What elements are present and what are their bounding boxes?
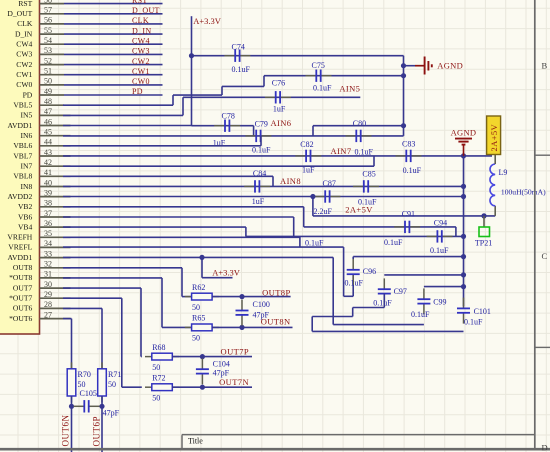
- svg-text:0.1uF: 0.1uF: [355, 147, 374, 156]
- svg-text:C104: C104: [213, 360, 230, 369]
- svg-text:Title: Title: [188, 437, 203, 446]
- svg-text:C96: C96: [363, 267, 376, 276]
- svg-text:32: 32: [44, 260, 52, 269]
- svg-text:C87: C87: [323, 179, 336, 188]
- svg-text:C85: C85: [362, 170, 375, 179]
- svg-text:CW4: CW4: [16, 40, 32, 49]
- svg-text:D: D: [542, 443, 548, 452]
- svg-text:50: 50: [108, 380, 116, 389]
- svg-text:27: 27: [44, 310, 52, 319]
- svg-text:36: 36: [44, 219, 52, 228]
- svg-text:AVDD2: AVDD2: [8, 192, 33, 201]
- svg-text:CW2: CW2: [16, 60, 32, 69]
- svg-text:OUT6N: OUT6N: [61, 415, 71, 447]
- svg-text:C94: C94: [434, 219, 447, 228]
- svg-text:VB4: VB4: [18, 222, 33, 231]
- svg-text:45: 45: [44, 128, 52, 137]
- svg-text:C100: C100: [253, 300, 270, 309]
- svg-text:*OUT6: *OUT6: [9, 314, 32, 323]
- svg-text:57: 57: [44, 6, 52, 15]
- svg-text:VBL7: VBL7: [13, 151, 32, 160]
- svg-text:R68: R68: [152, 343, 165, 352]
- svg-text:A+3.3V: A+3.3V: [212, 267, 241, 277]
- svg-text:B: B: [542, 61, 548, 71]
- svg-text:0.1uF: 0.1uF: [313, 84, 332, 93]
- svg-text:OUT8: OUT8: [13, 263, 33, 272]
- svg-text:C74: C74: [232, 43, 245, 52]
- svg-text:31: 31: [44, 270, 52, 279]
- svg-text:AVDD1: AVDD1: [8, 121, 33, 130]
- svg-text:C91: C91: [402, 209, 415, 218]
- svg-text:46: 46: [44, 117, 52, 126]
- svg-text:OUT7N: OUT7N: [219, 377, 249, 387]
- svg-text:AVDD1: AVDD1: [8, 253, 33, 262]
- svg-text:44: 44: [44, 138, 52, 147]
- svg-text:AIN8: AIN8: [280, 176, 301, 186]
- svg-text:38: 38: [44, 199, 52, 208]
- svg-text:VBL8: VBL8: [13, 172, 32, 181]
- svg-text:2.2uF: 2.2uF: [314, 207, 333, 216]
- svg-text:CW4: CW4: [132, 36, 150, 45]
- svg-text:33: 33: [44, 249, 52, 258]
- svg-text:0.1uF: 0.1uF: [373, 299, 392, 308]
- svg-text:CW1: CW1: [132, 67, 150, 76]
- svg-text:34: 34: [44, 239, 52, 248]
- svg-text:C83: C83: [402, 140, 415, 149]
- svg-text:53: 53: [44, 46, 52, 55]
- svg-text:CW3: CW3: [132, 47, 150, 56]
- svg-text:50: 50: [152, 363, 160, 372]
- svg-text:30: 30: [44, 280, 52, 289]
- svg-text:100uH(50mA): 100uH(50mA): [501, 187, 546, 196]
- svg-text:R62: R62: [192, 283, 205, 292]
- svg-text:0.1uF: 0.1uF: [384, 238, 403, 247]
- svg-text:VB6: VB6: [18, 212, 33, 221]
- svg-text:IN5: IN5: [20, 111, 32, 120]
- svg-text:AIN7: AIN7: [331, 146, 352, 156]
- svg-text:OUT6: OUT6: [13, 304, 33, 313]
- svg-text:C79: C79: [255, 120, 268, 129]
- svg-text:47pF: 47pF: [253, 311, 270, 320]
- svg-text:OUT7P: OUT7P: [221, 347, 249, 357]
- svg-text:TP21: TP21: [475, 239, 492, 248]
- svg-text:CW2: CW2: [132, 57, 150, 66]
- svg-text:C99: C99: [433, 297, 446, 306]
- svg-text:1uF: 1uF: [273, 105, 286, 114]
- svg-text:R71: R71: [108, 370, 121, 379]
- svg-text:0.1uF: 0.1uF: [464, 318, 483, 327]
- svg-text:CW0: CW0: [132, 77, 150, 86]
- svg-text:D_IN: D_IN: [132, 26, 151, 35]
- svg-text:2A+5V: 2A+5V: [345, 205, 373, 215]
- svg-text:50: 50: [78, 380, 86, 389]
- svg-text:C75: C75: [312, 61, 325, 70]
- svg-text:VB2: VB2: [18, 202, 33, 211]
- svg-text:OUT6P: OUT6P: [92, 416, 102, 447]
- svg-text:35: 35: [44, 229, 52, 238]
- svg-text:1uF: 1uF: [252, 197, 265, 206]
- svg-text:40: 40: [44, 178, 52, 187]
- svg-text:L9: L9: [499, 168, 508, 177]
- svg-text:*OUT7: *OUT7: [9, 294, 32, 303]
- svg-text:47pF: 47pF: [213, 369, 230, 378]
- svg-text:C78: C78: [222, 112, 235, 121]
- svg-text:50: 50: [152, 393, 160, 402]
- svg-text:C: C: [542, 251, 548, 261]
- svg-text:47: 47: [44, 107, 52, 116]
- svg-text:AIN6: AIN6: [271, 118, 292, 128]
- svg-text:VBL6: VBL6: [13, 141, 32, 150]
- svg-text:PD: PD: [23, 90, 33, 99]
- svg-text:C105: C105: [80, 389, 97, 398]
- svg-text:AGND: AGND: [451, 128, 477, 138]
- svg-text:C97: C97: [394, 287, 407, 296]
- svg-text:0.1uF: 0.1uF: [430, 246, 449, 255]
- svg-text:47pF: 47pF: [103, 408, 120, 417]
- svg-text:0.1uF: 0.1uF: [411, 310, 430, 319]
- svg-text:39: 39: [44, 188, 52, 197]
- svg-text:56: 56: [44, 16, 52, 25]
- svg-text:50: 50: [192, 334, 200, 343]
- svg-text:28: 28: [44, 300, 52, 309]
- svg-text:OUT8P: OUT8P: [262, 288, 290, 298]
- svg-text:IN7: IN7: [20, 162, 32, 171]
- svg-text:*OUT8: *OUT8: [9, 273, 32, 282]
- svg-text:IN6: IN6: [20, 131, 32, 140]
- svg-text:0.1uF: 0.1uF: [403, 166, 422, 175]
- svg-text:R70: R70: [78, 370, 91, 379]
- svg-text:C76: C76: [272, 79, 285, 88]
- svg-text:VREFH: VREFH: [7, 233, 32, 242]
- svg-text:58: 58: [44, 0, 52, 4]
- svg-text:AGND: AGND: [437, 61, 463, 71]
- svg-text:IN8: IN8: [20, 182, 32, 191]
- svg-text:C82: C82: [300, 140, 313, 149]
- svg-text:OUT7: OUT7: [13, 283, 33, 292]
- svg-text:41: 41: [44, 168, 52, 177]
- svg-text:0.1uF: 0.1uF: [305, 239, 324, 248]
- svg-text:43: 43: [44, 148, 52, 157]
- svg-text:PD: PD: [132, 87, 143, 96]
- svg-text:AIN5: AIN5: [339, 83, 360, 93]
- svg-text:VREFL: VREFL: [8, 243, 32, 252]
- svg-text:29: 29: [44, 290, 52, 299]
- svg-text:49: 49: [44, 87, 52, 96]
- svg-text:VBL5: VBL5: [13, 101, 32, 110]
- svg-text:55: 55: [44, 26, 52, 35]
- svg-text:D_IN: D_IN: [15, 29, 33, 38]
- svg-text:A+3.3V: A+3.3V: [193, 16, 222, 26]
- svg-text:37: 37: [44, 209, 52, 218]
- svg-text:CLK: CLK: [132, 16, 149, 25]
- svg-text:R65: R65: [192, 314, 205, 323]
- svg-text:2A+5V: 2A+5V: [489, 123, 499, 151]
- svg-text:C101: C101: [474, 307, 491, 316]
- svg-text:0.1uF: 0.1uF: [252, 146, 271, 155]
- svg-text:CW1: CW1: [16, 70, 32, 79]
- svg-text:R72: R72: [152, 373, 165, 382]
- svg-text:48: 48: [44, 97, 52, 106]
- svg-text:D_OUT: D_OUT: [7, 9, 32, 18]
- svg-text:D_OUT: D_OUT: [132, 6, 160, 15]
- svg-text:42: 42: [44, 158, 52, 167]
- svg-text:54: 54: [44, 36, 52, 45]
- svg-text:C84: C84: [253, 169, 266, 178]
- svg-text:52: 52: [44, 56, 52, 65]
- svg-text:0.1uF: 0.1uF: [345, 279, 364, 288]
- svg-text:CW3: CW3: [16, 50, 32, 59]
- svg-text:RST: RST: [132, 0, 148, 5]
- svg-text:CW0: CW0: [16, 80, 32, 89]
- svg-text:51: 51: [44, 67, 52, 76]
- svg-text:0.1uF: 0.1uF: [232, 65, 251, 74]
- svg-text:50: 50: [44, 77, 52, 86]
- svg-text:RST: RST: [18, 0, 32, 8]
- svg-text:CLK: CLK: [17, 19, 33, 28]
- svg-text:50: 50: [192, 303, 200, 312]
